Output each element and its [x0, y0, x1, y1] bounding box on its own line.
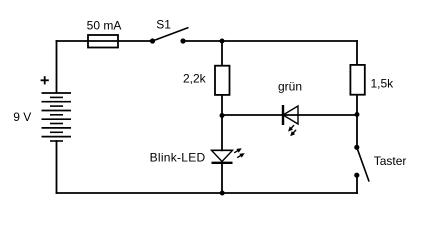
svg-text:50 mA: 50 mA — [87, 19, 122, 33]
svg-text:Blink-LED: Blink-LED — [150, 151, 206, 165]
svg-text:9 V: 9 V — [13, 110, 31, 124]
svg-text:S1: S1 — [156, 18, 171, 32]
svg-text:2,2k: 2,2k — [183, 71, 207, 85]
svg-text:Taster: Taster — [374, 154, 407, 168]
svg-text:1,5k: 1,5k — [371, 77, 395, 91]
svg-text:grün: grün — [278, 80, 302, 94]
